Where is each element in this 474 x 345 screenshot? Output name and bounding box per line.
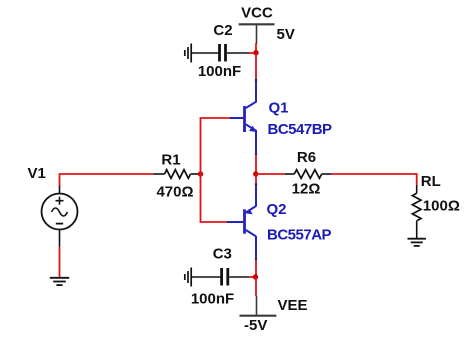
AC source V1: [42, 186, 78, 247]
ground (RL): [408, 239, 426, 246]
node pin tick (Q1 emitter): [255, 153, 258, 156]
svg-text:12Ω: 12Ω: [292, 181, 321, 198]
capacitor C2: [191, 22, 249, 80]
svg-text:VEE: VEE: [278, 297, 308, 314]
svg-text:470Ω: 470Ω: [156, 184, 193, 201]
ground (C3, sideways): [185, 268, 191, 287]
svg-text:Q2: Q2: [267, 201, 287, 218]
ground (C2, sideways): [185, 44, 191, 63]
wire VCC stub to node A: [255, 43, 257, 53]
wire C3 to node D: [249, 276, 256, 278]
node D (C3 / Q2 collector / VEE): [253, 274, 258, 279]
transistor Q1: [230, 80, 332, 154]
wire V1 top to R1: [60, 174, 155, 186]
svg-text:V1: V1: [28, 165, 46, 182]
wire node D to VEE: [255, 277, 257, 296]
wire base rail up: [201, 118, 231, 174]
wire R1 to node C: [198, 173, 201, 175]
ground (V1): [50, 278, 69, 285]
svg-text:100nF: 100nF: [198, 63, 241, 80]
svg-text:100nF: 100nF: [191, 291, 234, 308]
svg-text:C2: C2: [213, 22, 232, 39]
node B (Q1 emitter / Q2 emitter / R6): [253, 171, 258, 176]
svg-text:5V: 5V: [277, 26, 295, 43]
node A (VCC / C2 / Q1 collector): [253, 50, 258, 55]
wire node A to Q1 collector: [255, 53, 257, 80]
svg-text:BC547BP: BC547BP: [268, 121, 333, 138]
wire node B to R6: [256, 173, 285, 175]
wire V1 bottom to ground: [59, 247, 61, 278]
svg-text:100Ω: 100Ω: [423, 198, 460, 215]
wire Q1 emitter to node B: [255, 154, 257, 175]
svg-text:Q1: Q1: [269, 100, 289, 117]
svg-text:VCC: VCC: [241, 5, 273, 22]
transistor Q2: [227, 184, 332, 259]
node pin tick (Q2 emitter): [255, 183, 258, 186]
svg-text:BC557AP: BC557AP: [267, 227, 332, 244]
wire node B to Q2 emitter: [255, 174, 257, 184]
resistor RL: [412, 173, 459, 239]
svg-text:-5V: -5V: [244, 317, 267, 334]
power VEE: [240, 296, 308, 334]
capacitor C3: [191, 246, 249, 308]
svg-text:RL: RL: [421, 173, 441, 190]
node pin tick (Q2 collector): [255, 258, 258, 261]
svg-text:C3: C3: [213, 246, 232, 263]
svg-text:R1: R1: [161, 152, 180, 169]
resistor R6: [285, 149, 331, 198]
wire Q2 collector to node D: [255, 259, 257, 277]
svg-text:R6: R6: [297, 149, 316, 166]
wire C2 to node A: [249, 52, 256, 54]
power VCC: [239, 5, 295, 45]
node pin tick (Q1 collector): [255, 79, 258, 82]
node C (R1 / base rail): [198, 171, 203, 176]
resistor R1: [154, 152, 198, 201]
wire base rail down: [201, 174, 228, 222]
wire R6 to RL: [331, 174, 417, 185]
